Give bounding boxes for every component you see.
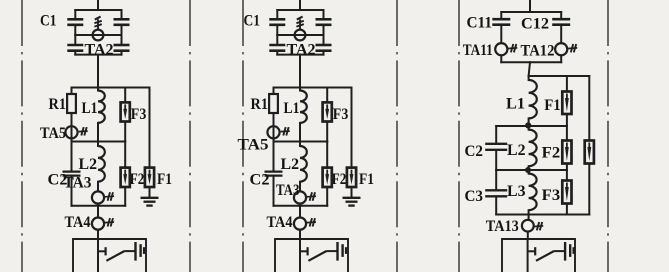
capacitor lower left unit (cell 1)	[67, 45, 83, 51]
cell boundary dash-dot line 2	[189, 0, 191, 272]
svg-text:L1: L1	[506, 95, 525, 112]
wire bar2 to C2 (cell 3)	[495, 126, 497, 143]
wire node bar1 (cell 2)	[274, 87, 352, 89]
wire main line into cell 1	[97, 239, 99, 272]
current transformer TA2 (cell 1)	[93, 30, 104, 41]
svg-text:C1: C1	[244, 13, 261, 30]
cell boundary dash-dot line 6	[607, 0, 609, 272]
wire right stub (cell 2)	[323, 10, 325, 18]
polarity mark TA5 (cell 1)	[79, 127, 88, 135]
arrester F1 (cell 2)	[347, 168, 356, 187]
svg-text:C2: C2	[465, 143, 484, 160]
current transformer TA3 (cell 2)	[294, 191, 306, 203]
wire bar1 to R1 (cell 2)	[273, 88, 275, 95]
current transformer TA13 (cell 3)	[522, 220, 534, 232]
wire bar1 down to F1 (cell 1)	[149, 88, 151, 168]
wire C2 to bar3 (cell 2)	[273, 177, 275, 206]
breaker cell box 1	[73, 239, 146, 272]
capacitor lower left unit (cell 2)	[269, 45, 285, 51]
wire node bar2 (cell 1)	[72, 141, 126, 143]
arrester spark mark above TA2 (cell 2)	[296, 17, 303, 30]
resistor R1 (cell 2)	[269, 94, 278, 113]
wire L1 to node (cell 3)	[528, 118, 530, 126]
polarity mark TA12 (cell 3)	[568, 44, 577, 52]
wire top bar of TA2 assembly (cell 2)	[277, 9, 323, 11]
wire lower left cap to bottom bar (cell 1)	[74, 52, 76, 55]
inductor L1 (cell 2)	[300, 91, 307, 123]
capacitor C2 (cell 3)	[485, 144, 507, 150]
current transformer TA12 (cell 3)	[555, 43, 567, 55]
arrester spark mark above TA2 (cell 1)	[94, 17, 101, 30]
svg-text:F2: F2	[332, 171, 347, 188]
wire main line into cell 3	[527, 239, 529, 272]
svg-text:TA11: TA11	[463, 42, 493, 59]
wire L2 to TA3 (cell 1)	[97, 182, 99, 192]
svg-text:TA4: TA4	[65, 214, 91, 231]
wire F2 to bar3 (cell 1)	[124, 187, 126, 206]
arrester F3 (cell 1)	[121, 102, 130, 121]
wire bar2 to C2 (cell 2)	[273, 142, 275, 171]
wire bar4 to TA13 (cell 3)	[528, 215, 530, 221]
cell boundary dash-dot line 1	[21, 0, 23, 272]
wire right branch bottom (cell 3)	[588, 164, 590, 215]
wire R1 to TA5 (cell 2)	[273, 113, 275, 126]
wire mid bar through TA2 (cell 2)	[277, 34, 323, 36]
wire C1 left to mid bar (cell 1)	[74, 26, 76, 35]
polarity mark TA4 (cell 2)	[307, 218, 316, 226]
ground under F1 (cell 1)	[141, 198, 159, 206]
wire C2 to bar3 (cell 1)	[71, 177, 73, 206]
wire F1 to ground (cell 1)	[149, 187, 151, 198]
wire right to mid bar (cell 1)	[121, 26, 123, 35]
earth terminal bars in cell 2	[338, 242, 347, 261]
breaker cell box 2	[275, 239, 348, 272]
wire bar2 to F2 (cell 2)	[326, 142, 328, 168]
current transformer TA2 (cell 2)	[295, 30, 306, 41]
earth terminal bars in cell 1	[136, 242, 145, 261]
svg-text:R1: R1	[49, 96, 67, 113]
current transformer TA5 (cell 2)	[267, 126, 279, 138]
svg-text:F2: F2	[130, 171, 145, 188]
svg-text:L1: L1	[284, 100, 300, 117]
capacitor C2 (cell 2)	[265, 172, 283, 176]
wire right stub (cell 1)	[121, 10, 123, 18]
svg-text:C3: C3	[465, 188, 484, 205]
cell boundary dash-dot line 5	[458, 0, 460, 272]
wire bus top (cell 3)	[529, 0, 531, 12]
svg-text:F1: F1	[359, 171, 374, 188]
wire mid bar to lower right capacitor (cell 2)	[323, 35, 325, 44]
wire L1 to bar2 (cell 2)	[299, 123, 301, 142]
wire through TA5 to bar2 (cell 2)	[273, 126, 275, 141]
svg-text:TA13: TA13	[486, 218, 519, 235]
wire bar1 to R1 (cell 1)	[71, 88, 73, 95]
inductor L2 (cell 3)	[529, 130, 537, 167]
arrester F3 (cell 2)	[323, 102, 332, 121]
polarity mark TA11 (cell 3)	[508, 44, 517, 52]
wire node bar3 (cell 3)	[496, 169, 567, 171]
capacitor C1 right unit (cell 1)	[114, 19, 130, 25]
wire C1 left to mid bar (cell 2)	[276, 26, 278, 35]
wire bus to node bar1 (cell 1)	[97, 55, 99, 88]
capacitor lower right unit (cell 1)	[114, 45, 130, 51]
wire left stub to C1 (cell 2)	[276, 10, 278, 18]
wire bar1 to L1 (cell 1)	[97, 88, 99, 91]
wire node to L3 (cell 3)	[528, 170, 530, 174]
wire bar1 to F3 (cell 2)	[326, 88, 328, 103]
wire bottom bar of TA2 assembly (cell 1)	[75, 54, 121, 56]
wire F3 to bar4 (cell 3)	[566, 204, 568, 215]
wire node bar2 (cell 2)	[274, 141, 328, 143]
arrester F1 (cell 1)	[145, 168, 154, 187]
inductor L3 (cell 3)	[529, 174, 537, 211]
wire lower right cap to bottom bar (cell 2)	[323, 52, 325, 55]
wire bar1 to L1 (cell 3)	[528, 76, 530, 80]
wire C2 to bar3 (cell 3)	[495, 151, 497, 170]
wire TA11 to bottom bar (cell 3)	[500, 55, 502, 62]
disconnector switch in cell 1	[98, 247, 135, 261]
wire top bar (cell 3)	[501, 11, 561, 13]
inductor L2 (cell 2)	[300, 146, 307, 182]
wire top bar of TA2 assembly (cell 1)	[75, 9, 121, 11]
svg-text:F3: F3	[542, 187, 561, 204]
wire right to mid bar (cell 2)	[323, 26, 325, 35]
svg-text:F2: F2	[542, 145, 561, 162]
wire TA4 to cell (cell 2)	[299, 230, 301, 239]
arrester F2 (cell 2)	[323, 168, 332, 187]
wire TA12 to bottom bar (cell 3)	[560, 55, 562, 62]
wire L2 to node (cell 3)	[528, 166, 530, 170]
wire L2 to TA3 (cell 2)	[299, 182, 301, 192]
wire right branch top (cell 3)	[588, 76, 590, 141]
wire bus top (cell 1)	[97, 0, 99, 10]
wire L1 to bar2 (cell 1)	[97, 123, 99, 142]
wire F1 to bar2 (cell 3)	[566, 114, 568, 126]
earth terminal bars in cell 3	[565, 242, 574, 261]
arrester F1 (cell 3)	[562, 92, 571, 115]
arrester common right branch (cell 3)	[585, 141, 594, 164]
ground under F1 (cell 2)	[343, 198, 361, 206]
wire F2 to bar3 (cell 2)	[326, 187, 328, 206]
svg-text:F1: F1	[544, 97, 561, 114]
svg-text:F1: F1	[157, 171, 172, 188]
arrester F3 (cell 3)	[562, 181, 571, 204]
svg-text:F3: F3	[333, 106, 349, 123]
wire lower right cap to bottom bar (cell 1)	[121, 52, 123, 55]
wire stub to C11 (cell 3)	[500, 12, 502, 18]
wire node bar1 (cell 3)	[529, 75, 590, 77]
wire bar1 down to F1 (cell 2)	[351, 88, 353, 168]
polarity mark TA13 (cell 3)	[534, 222, 543, 230]
cell boundary dash-dot line 4	[396, 0, 398, 272]
svg-text:C12: C12	[521, 15, 549, 32]
wire node to L2 (cell 3)	[528, 126, 530, 130]
wire TA4 to cell (cell 1)	[97, 230, 99, 239]
capacitor C3 (cell 3)	[485, 190, 507, 196]
resistor R1 (cell 1)	[67, 94, 76, 113]
wire F3 to bar2 (cell 2)	[326, 122, 328, 142]
svg-text:L2: L2	[507, 142, 526, 159]
svg-text:TA5: TA5	[238, 137, 269, 154]
wire TA3 through bar3 to TA4 (cell 1)	[97, 204, 99, 218]
wire R1 to TA5 (cell 1)	[71, 113, 73, 126]
wire mid bar to lower left capacitor (cell 2)	[276, 35, 278, 44]
wire bar2 to L2 (cell 2)	[299, 142, 301, 147]
wire left stub to C1 (cell 1)	[74, 10, 76, 18]
svg-text:TA4: TA4	[267, 214, 293, 231]
arrester F2 (cell 3)	[562, 141, 571, 164]
arrester F2 (cell 1)	[121, 168, 130, 187]
wire TA3 through bar3 to TA4 (cell 2)	[299, 204, 301, 218]
current transformer TA5 (cell 1)	[65, 126, 77, 138]
junction node L1-L2 (cell 3)	[525, 122, 531, 128]
wire bottom bar of TA2 assembly (cell 2)	[277, 54, 323, 56]
wire node bar3 (cell 2)	[274, 205, 328, 207]
svg-text:L1: L1	[82, 100, 98, 117]
wire bar1 to F1 (cell 3)	[566, 76, 568, 92]
svg-text:L3: L3	[507, 183, 526, 200]
current transformer TA4 (cell 1)	[92, 218, 104, 230]
wire bar3 to F3 (cell 3)	[566, 170, 568, 181]
current transformer TA11 (cell 3)	[495, 43, 507, 55]
junction node L2-L3 (cell 3)	[525, 167, 531, 173]
disconnector switch in cell 3	[528, 247, 565, 261]
polarity mark TA5 (cell 2)	[281, 127, 290, 135]
wire stub to C12 (cell 3)	[560, 12, 562, 18]
wire F2 to bar3 (cell 3)	[566, 164, 568, 171]
polarity mark TA3 (cell 1)	[105, 192, 114, 200]
wire F1 to ground (cell 2)	[351, 187, 353, 198]
wire bar2 to F2 (cell 3)	[566, 126, 568, 141]
wire mid bar to lower right capacitor (cell 1)	[121, 35, 123, 44]
current transformer TA3 (cell 1)	[92, 191, 104, 203]
wire bus top (cell 2)	[299, 0, 301, 10]
capacitor C1 left unit (cell 2)	[269, 19, 285, 25]
capacitor C11 (cell 3)	[492, 19, 510, 25]
wire bus to node bar1 (cell 3)	[529, 62, 530, 76]
wire node bar4 (cell 3)	[496, 214, 589, 216]
wire node bar1 (cell 1)	[72, 87, 150, 89]
capacitor C2 (cell 1)	[63, 172, 81, 176]
wire lower left cap to bottom bar (cell 2)	[276, 52, 278, 55]
capacitor C12 (cell 3)	[552, 19, 570, 25]
wire L3 to bar4 (cell 3)	[528, 210, 530, 214]
inductor L1 (cell 1)	[98, 91, 105, 123]
svg-text:R1: R1	[251, 96, 269, 113]
wire bus to node bar1 (cell 2)	[299, 55, 301, 88]
capacitor lower right unit (cell 2)	[316, 45, 332, 51]
wire node bar3 (cell 1)	[72, 205, 126, 207]
svg-text:L2: L2	[79, 156, 98, 173]
polarity mark TA3 (cell 2)	[307, 192, 316, 200]
wire bar1 to L1 (cell 2)	[299, 88, 301, 91]
inductor L1 (cell 3)	[529, 80, 537, 118]
inductor L2 (cell 1)	[98, 146, 105, 182]
wire bar2 to C2 (cell 1)	[71, 142, 73, 171]
current transformer TA4 (cell 2)	[294, 218, 306, 230]
wire bar2 to F2 (cell 1)	[124, 142, 126, 168]
wire TA13 to cell (cell 3)	[527, 232, 529, 239]
svg-text:TA5: TA5	[40, 125, 66, 142]
wire bar1 to F3 (cell 1)	[124, 88, 126, 103]
polarity mark TA4 (cell 1)	[105, 218, 114, 226]
svg-text:F3: F3	[131, 106, 147, 123]
svg-text:TA12: TA12	[521, 43, 555, 60]
wire through TA5 to bar2 (cell 1)	[71, 126, 73, 141]
capacitor C1 left unit (cell 1)	[67, 19, 83, 25]
wire bar2 to L2 (cell 1)	[97, 142, 99, 147]
svg-text:C2: C2	[250, 172, 270, 189]
wire main line into cell 2	[299, 239, 301, 272]
wire mid bar to lower left capacitor (cell 1)	[74, 35, 76, 44]
wire node bar2 (cell 3)	[496, 125, 567, 127]
cell boundary dash-dot line 3	[242, 0, 244, 272]
svg-text:L2: L2	[281, 156, 300, 173]
wire bar3 to C3 (cell 3)	[495, 170, 497, 189]
wire C12 to TA12 (cell 3)	[560, 26, 562, 43]
disconnector switch in cell 2	[300, 247, 337, 261]
wire bottom bar of coupling (cell 3)	[501, 61, 561, 63]
wire C11 to TA11 (cell 3)	[500, 26, 502, 43]
svg-text:TA3: TA3	[64, 175, 92, 192]
wire C3 to bar4 (cell 3)	[495, 198, 497, 215]
svg-text:C11: C11	[467, 15, 493, 32]
breaker cell box 3	[502, 239, 575, 272]
capacitor C1 right unit (cell 2)	[316, 19, 332, 25]
svg-text:C1: C1	[40, 13, 57, 30]
wire mid bar through TA2 (cell 1)	[75, 34, 121, 36]
wire F3 to bar2 (cell 1)	[124, 122, 126, 142]
svg-text:TA3: TA3	[276, 182, 300, 199]
